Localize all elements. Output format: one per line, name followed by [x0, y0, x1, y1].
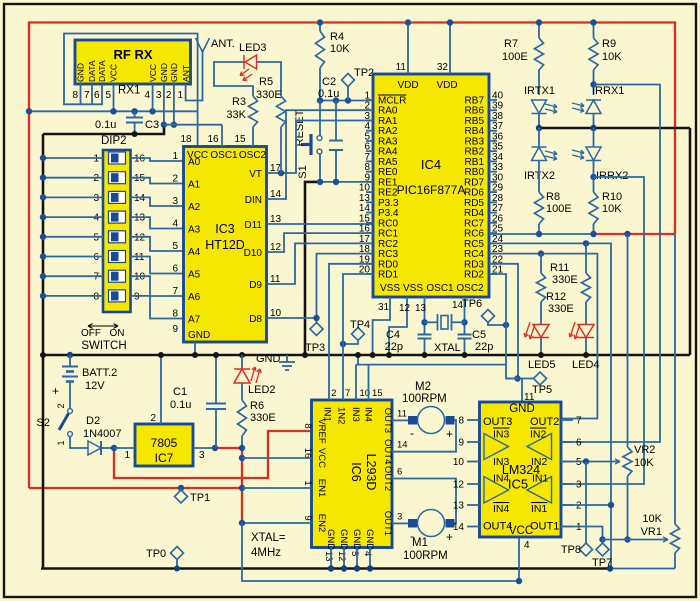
microcontroller IC4 PIC16F877A	[373, 74, 489, 297]
wire OUT1 to M1	[392, 522, 408, 524]
svg-text:5: 5	[349, 551, 360, 556]
svg-text:4: 4	[93, 213, 99, 224]
svg-text:12: 12	[134, 232, 146, 243]
svg-text:C5: C5	[472, 329, 486, 341]
svg-text:1N4007: 1N4007	[83, 428, 122, 440]
svg-text:13: 13	[323, 551, 334, 562]
potentiometer VR1 10K	[671, 524, 680, 553]
svg-text:PIC16F877A: PIC16F877A	[397, 183, 466, 197]
svg-text:OSC2: OSC2	[456, 283, 484, 294]
svg-text:VCC: VCC	[109, 64, 119, 82]
svg-text:6: 6	[93, 252, 99, 263]
resistor R7 100E	[538, 23, 540, 39]
svg-text:2: 2	[56, 403, 66, 408]
test point TP7	[599, 536, 605, 542]
svg-text:4: 4	[145, 90, 151, 101]
svg-text:7: 7	[84, 90, 90, 101]
wire IRRX2 junction	[590, 174, 596, 180]
svg-text:32: 32	[437, 62, 449, 73]
wire 5V red rail bottom to TP1	[29, 487, 242, 489]
capacitor C5 22p	[458, 334, 472, 336]
wire OSC1 pin13 to crystal	[424, 297, 426, 335]
svg-text:9: 9	[302, 515, 313, 520]
svg-text:LED4: LED4	[572, 359, 600, 371]
LED4	[585, 302, 587, 325]
svg-text:IN4: IN4	[493, 473, 510, 485]
svg-text:11: 11	[397, 408, 407, 419]
voltage regulator IC7 7805	[135, 424, 193, 466]
svg-text:IRTX1: IRTX1	[524, 85, 555, 97]
svg-text:1: 1	[56, 440, 66, 445]
svg-text:10K: 10K	[602, 203, 622, 215]
svg-text:C1: C1	[173, 386, 187, 398]
wire MCLR line	[320, 100, 373, 102]
wire RD3 pin22 row to TP5	[489, 264, 518, 379]
svg-text:15: 15	[134, 173, 146, 184]
svg-text:14: 14	[134, 193, 146, 204]
svg-text:LED5: LED5	[528, 359, 556, 371]
resistor R8 100E	[535, 192, 544, 224]
svg-text:C2: C2	[322, 76, 336, 88]
svg-text:-: -	[410, 426, 414, 440]
svg-text:GND: GND	[351, 529, 362, 550]
wire VDD pin32	[449, 23, 451, 75]
svg-text:GND: GND	[509, 403, 535, 415]
wire EN2 line	[242, 522, 312, 524]
svg-text:R12: R12	[546, 291, 566, 303]
svg-text:330E: 330E	[256, 89, 282, 101]
motor M2 100RPM	[418, 407, 445, 434]
svg-text:10K: 10K	[642, 513, 662, 525]
svg-text:2: 2	[166, 90, 172, 101]
wires DIP2 to IC3 address pins	[131, 158, 184, 161]
svg-text:VR2: VR2	[634, 444, 655, 456]
svg-text:OUT3: OUT3	[483, 416, 512, 428]
svg-text:VDD: VDD	[397, 80, 418, 91]
svg-text:R8: R8	[546, 191, 560, 203]
svg-text:OUT1: OUT1	[530, 521, 559, 533]
svg-text:DATA: DATA	[87, 60, 97, 82]
svg-text:10K: 10K	[634, 457, 654, 469]
switch S2	[69, 382, 71, 409]
wire OSC1 stub	[221, 125, 223, 147]
wire IN3 IN4 ground line	[357, 355, 359, 365]
svg-text:100E: 100E	[546, 203, 572, 215]
svg-text:1: 1	[576, 522, 582, 533]
svg-text:6: 6	[397, 467, 402, 478]
svg-text:IN3: IN3	[493, 429, 510, 441]
svg-text:RD2: RD2	[464, 269, 484, 280]
svg-text:OUT4: OUT4	[382, 439, 393, 464]
svg-text:D8: D8	[249, 314, 262, 325]
svg-text:R4: R4	[330, 31, 344, 43]
svg-text:IC5: IC5	[508, 477, 528, 492]
svg-text:7: 7	[576, 416, 582, 427]
wire OUT2 to M1	[392, 479, 456, 524]
svg-text:VT: VT	[249, 169, 262, 180]
svg-text:IN3: IN3	[350, 407, 361, 422]
svg-text:IN2: IN2	[531, 456, 548, 468]
resistor R3 33K	[249, 96, 258, 127]
motor M1 100RPM	[418, 510, 445, 537]
svg-text:3: 3	[172, 196, 178, 207]
wire LED3 anode to R3	[214, 62, 253, 96]
wire OUT4 to M2	[392, 420, 456, 452]
svg-text:10K: 10K	[602, 51, 622, 63]
svg-text:12: 12	[336, 551, 347, 562]
svg-text:330E: 330E	[250, 412, 276, 424]
svg-text:A2: A2	[188, 202, 201, 213]
svg-text:2: 2	[150, 413, 156, 424]
svg-text:R11: R11	[550, 262, 569, 274]
wire RX1 pin7	[91, 84, 93, 104]
wire IRRX1 junction	[590, 81, 596, 87]
ground symbol	[286, 355, 288, 362]
svg-text:LED3: LED3	[239, 42, 267, 54]
svg-text:IC3: IC3	[215, 222, 235, 236]
svg-text:OSC1: OSC1	[426, 283, 454, 294]
wire ground from IC4 pin9 area	[305, 182, 320, 355]
svg-text:11: 11	[134, 252, 145, 263]
svg-text:5: 5	[172, 241, 178, 252]
wire VDD pin11	[407, 23, 409, 75]
IR transmitter IRTX2	[538, 128, 540, 147]
comparator IC5 LM324	[480, 402, 562, 537]
svg-text:TP1: TP1	[190, 492, 210, 504]
svg-text:RX1: RX1	[118, 85, 140, 97]
svg-text:8: 8	[172, 309, 178, 320]
svg-text:D10: D10	[244, 248, 263, 259]
svg-text:S2: S2	[37, 417, 50, 429]
svg-text:+: +	[52, 384, 59, 398]
svg-text:1: 1	[93, 154, 99, 165]
IR receiver IRRX1	[586, 100, 601, 114]
svg-text:14: 14	[397, 440, 408, 451]
svg-text:4: 4	[362, 551, 373, 556]
wire IC3 pin9 GND	[194, 342, 196, 355]
svg-text:22p: 22p	[385, 341, 403, 353]
svg-text:TP6: TP6	[462, 298, 482, 310]
svg-text:12: 12	[399, 303, 411, 314]
svg-text:RF RX: RF RX	[114, 47, 153, 62]
wire red 12V to VREF	[114, 431, 312, 478]
IR receiver IRRX2	[593, 128, 595, 147]
svg-text:GND: GND	[188, 330, 210, 341]
svg-text:13: 13	[415, 303, 427, 314]
svg-text:0.1u: 0.1u	[170, 399, 191, 411]
wire RX1 pin6 loop	[64, 34, 198, 147]
svg-text:TP4: TP4	[350, 319, 370, 331]
resistor R10 10K	[589, 192, 598, 224]
svg-text:M1: M1	[412, 537, 428, 549]
svg-text:330E: 330E	[552, 274, 578, 286]
svg-text:15: 15	[234, 134, 246, 145]
svg-text:IN2: IN2	[530, 429, 547, 441]
svg-text:3: 3	[93, 193, 99, 204]
wire VCC16 line	[242, 457, 312, 459]
decoder IC3 HT12D	[184, 147, 267, 343]
capacitor C2 0.1u	[329, 140, 343, 142]
wire bottom bus blue extension	[610, 568, 675, 570]
LED3 VT indicator	[244, 55, 257, 69]
svg-text:7805: 7805	[151, 436, 178, 450]
wire LED3 cathode to R5	[257, 62, 282, 96]
svg-text:9: 9	[172, 324, 178, 335]
svg-text:IRRX2: IRRX2	[596, 170, 628, 182]
svg-text:EN1: EN1	[316, 479, 327, 497]
wire RX1 pin3	[163, 84, 165, 125]
capacitor C3	[126, 117, 143, 119]
svg-text:33K: 33K	[226, 109, 246, 121]
wire ground bus left vertical	[42, 134, 45, 569]
svg-text:DIP2: DIP2	[101, 135, 127, 147]
svg-text:7: 7	[172, 286, 178, 297]
svg-text:OSC2: OSC2	[239, 150, 267, 161]
svg-text:A7: A7	[188, 315, 201, 326]
resistor R9 10K	[593, 23, 595, 39]
svg-text:4: 4	[524, 540, 530, 551]
wire EN1 line	[242, 487, 312, 489]
svg-text:DIN: DIN	[245, 195, 262, 206]
svg-text:GND: GND	[76, 63, 86, 82]
svg-text:XTAL: XTAL	[434, 342, 461, 354]
wire ground top-left to C3	[43, 125, 164, 134]
wire ground mid bus	[43, 354, 690, 357]
svg-text:A5: A5	[188, 270, 201, 281]
wire DIN to IC4 RA0	[267, 110, 374, 199]
svg-text:8: 8	[458, 416, 464, 427]
op-amp A3 triangle	[484, 434, 509, 460]
svg-text:7: 7	[345, 388, 350, 399]
svg-text:GND: GND	[169, 63, 179, 82]
resistor R4 10K	[316, 31, 325, 68]
svg-text:13: 13	[453, 501, 465, 512]
wire LM324 pin5 to VR2	[561, 461, 620, 463]
battery BATT.2 12V	[67, 352, 73, 358]
svg-text:SWITCH: SWITCH	[81, 340, 126, 352]
svg-text:A1: A1	[188, 180, 201, 191]
svg-text:OUT4: OUT4	[483, 521, 512, 533]
svg-text:TP5: TP5	[532, 384, 552, 396]
svg-text:VSS: VSS	[380, 283, 400, 294]
wire LM324 pin2 to ground vertical	[561, 504, 611, 506]
svg-text:TP2: TP2	[354, 67, 374, 79]
resistor R6 330E	[241, 383, 243, 400]
svg-text:R10: R10	[602, 191, 622, 203]
svg-text:8: 8	[93, 291, 99, 302]
diode D2 1N4007	[70, 437, 88, 449]
svg-text:13: 13	[134, 213, 146, 224]
svg-text:2: 2	[172, 174, 178, 185]
svg-text:IN4: IN4	[362, 407, 373, 422]
svg-text:R6: R6	[250, 400, 264, 412]
svg-text:IN1: IN1	[532, 473, 549, 485]
wire OUT1 to TP7	[561, 527, 603, 540]
wire TP7 to VR1 wiper	[603, 539, 669, 541]
resistor R5 330E	[277, 96, 286, 127]
wire RD2 pin21 row to TP6 branch	[489, 274, 518, 379]
svg-text:D11: D11	[244, 220, 262, 231]
svg-text:1: 1	[302, 480, 313, 485]
svg-text:IC4: IC4	[421, 157, 441, 172]
svg-text:8: 8	[72, 90, 78, 101]
svg-text:100RPM: 100RPM	[403, 550, 448, 562]
svg-text:VSS: VSS	[403, 283, 423, 294]
svg-text:2: 2	[576, 501, 582, 512]
svg-text:4: 4	[172, 219, 178, 230]
test point TP5	[514, 375, 520, 381]
crystal XTAL	[425, 321, 438, 323]
wire ground bus right vertical	[689, 128, 692, 355]
svg-text:D2: D2	[86, 415, 100, 427]
wire VSS pin12	[389, 297, 407, 355]
svg-text:3: 3	[397, 511, 402, 522]
svg-text:1: 1	[172, 151, 178, 162]
svg-text:R3: R3	[232, 96, 246, 108]
test point TP1	[178, 485, 184, 491]
svg-text:BATT.2: BATT.2	[82, 367, 117, 379]
wire 5V red rail top	[29, 23, 675, 489]
svg-text:A3: A3	[188, 225, 201, 236]
svg-text:1N2: 1N2	[335, 407, 346, 424]
wire D9 to IC4 RC2	[267, 243, 374, 284]
test point TP3	[316, 318, 318, 323]
svg-text:IRRX1: IRRX1	[592, 85, 624, 97]
svg-text:15: 15	[372, 388, 383, 399]
wire ground bottom bus	[41, 567, 610, 570]
svg-text:DATA: DATA	[97, 60, 107, 82]
resistor R11 330E	[540, 254, 542, 273]
svg-text:IN4: IN4	[493, 503, 510, 515]
svg-text:31: 31	[378, 302, 390, 313]
svg-text:GND: GND	[159, 63, 169, 82]
svg-text:GND: GND	[338, 529, 349, 550]
svg-text:GND: GND	[325, 529, 336, 550]
svg-text:D9: D9	[249, 280, 262, 291]
svg-text:M2: M2	[415, 381, 431, 393]
svg-text:1: 1	[124, 450, 130, 461]
test point TP8	[585, 462, 587, 544]
svg-text:12V: 12V	[85, 380, 105, 392]
svg-text:330E: 330E	[548, 303, 574, 315]
svg-text:ANT: ANT	[181, 64, 191, 82]
wire RX1 pin4	[152, 84, 154, 111]
svg-text:VDD: VDD	[436, 80, 457, 91]
wires DIP2 left commons to ground	[43, 157, 103, 159]
svg-text:12: 12	[453, 480, 465, 491]
wire RX1 pin5	[113, 84, 115, 111]
svg-text:A4: A4	[188, 247, 201, 258]
svg-text:ANT.: ANT.	[211, 38, 235, 50]
resistor R12 330E	[585, 243, 587, 273]
svg-text:6: 6	[576, 438, 582, 449]
svg-text:TP3: TP3	[305, 342, 325, 354]
svg-text:9: 9	[458, 438, 464, 449]
svg-text:+: +	[446, 427, 453, 441]
wire RX1 pin8	[80, 84, 82, 104]
svg-text:2: 2	[331, 388, 336, 399]
wire RX1 pin1 to antenna	[186, 50, 203, 101]
wire VT to R5 and IC4 RA1	[267, 121, 374, 174]
RF receiver module RX1	[75, 40, 191, 84]
svg-text:XTAL=: XTAL=	[251, 532, 286, 544]
wire red IR bottom rail	[594, 233, 676, 235]
wire RC5 pin24 row	[489, 243, 611, 568]
svg-text:OUT2: OUT2	[530, 416, 559, 428]
wire ground IR row	[539, 127, 690, 130]
op-amp A4 triangle	[484, 477, 509, 504]
op-amp A2 triangle	[527, 434, 552, 460]
svg-text:4MHz: 4MHz	[251, 547, 281, 559]
wire L293D grounds to bus	[330, 548, 332, 569]
wire RC6 pin25 row	[489, 233, 594, 235]
wire OSC2 pin14 to crystal	[464, 297, 466, 335]
wire RX1 pin2	[173, 84, 175, 125]
svg-text:3: 3	[199, 450, 205, 461]
svg-text:R7: R7	[504, 38, 518, 50]
svg-text:OSC1: OSC1	[210, 150, 238, 161]
svg-text:16: 16	[134, 154, 146, 165]
svg-text:IC6: IC6	[349, 462, 363, 482]
motor driver IC6 L293D	[312, 400, 393, 548]
svg-text:14: 14	[453, 522, 465, 533]
IR transmitter IRTX1	[532, 100, 547, 114]
svg-text:LED2: LED2	[248, 384, 276, 396]
svg-text:GND: GND	[256, 353, 281, 365]
svg-text:VCC: VCC	[148, 64, 158, 82]
svg-text:0.1u: 0.1u	[95, 119, 116, 131]
svg-text:10: 10	[134, 272, 146, 283]
wire D11 to IC4 RC0	[267, 223, 374, 225]
svg-text:11: 11	[396, 62, 407, 73]
wire GND line under RX1	[164, 124, 222, 126]
svg-text:6: 6	[94, 90, 100, 101]
wire D10 to IC4 RC1	[267, 233, 374, 252]
capacitor C4 22p	[418, 334, 432, 336]
wire IC4 RD0 to IN1	[329, 264, 373, 400]
svg-text:TP0: TP0	[146, 548, 166, 560]
svg-text:8: 8	[302, 423, 313, 428]
svg-text:9: 9	[134, 291, 140, 302]
wire 5V to LM324 VCC pin4	[242, 523, 519, 581]
svg-text:6: 6	[172, 264, 178, 275]
wire IC4 RD1 to IN2	[343, 274, 373, 400]
svg-text:OUT3: OUT3	[382, 408, 393, 433]
antenna ANT	[196, 38, 210, 52]
svg-text:IN1: IN1	[531, 503, 548, 515]
svg-text:7: 7	[93, 272, 99, 283]
svg-text:VCC: VCC	[316, 448, 327, 468]
svg-text:18: 18	[180, 134, 192, 145]
svg-text:R9: R9	[602, 38, 616, 50]
wire VCC line	[29, 110, 198, 112]
svg-text:2: 2	[93, 173, 99, 184]
test point TP4	[352, 328, 365, 341]
svg-text:5: 5	[105, 90, 111, 101]
svg-text:16: 16	[302, 448, 313, 459]
potentiometer VR2 10K	[623, 447, 632, 476]
svg-text:VR1: VR1	[641, 526, 662, 538]
svg-text:R5: R5	[259, 76, 273, 88]
svg-text:100E: 100E	[502, 51, 528, 63]
svg-text:GND: GND	[364, 529, 375, 550]
wire RE1 row	[320, 181, 373, 183]
wire VSS pin31	[373, 297, 390, 355]
svg-text:S1: S1	[297, 165, 309, 178]
svg-text:TP8: TP8	[561, 544, 581, 556]
wire OUT3 to M2	[392, 419, 408, 421]
svg-text:3: 3	[576, 480, 582, 491]
